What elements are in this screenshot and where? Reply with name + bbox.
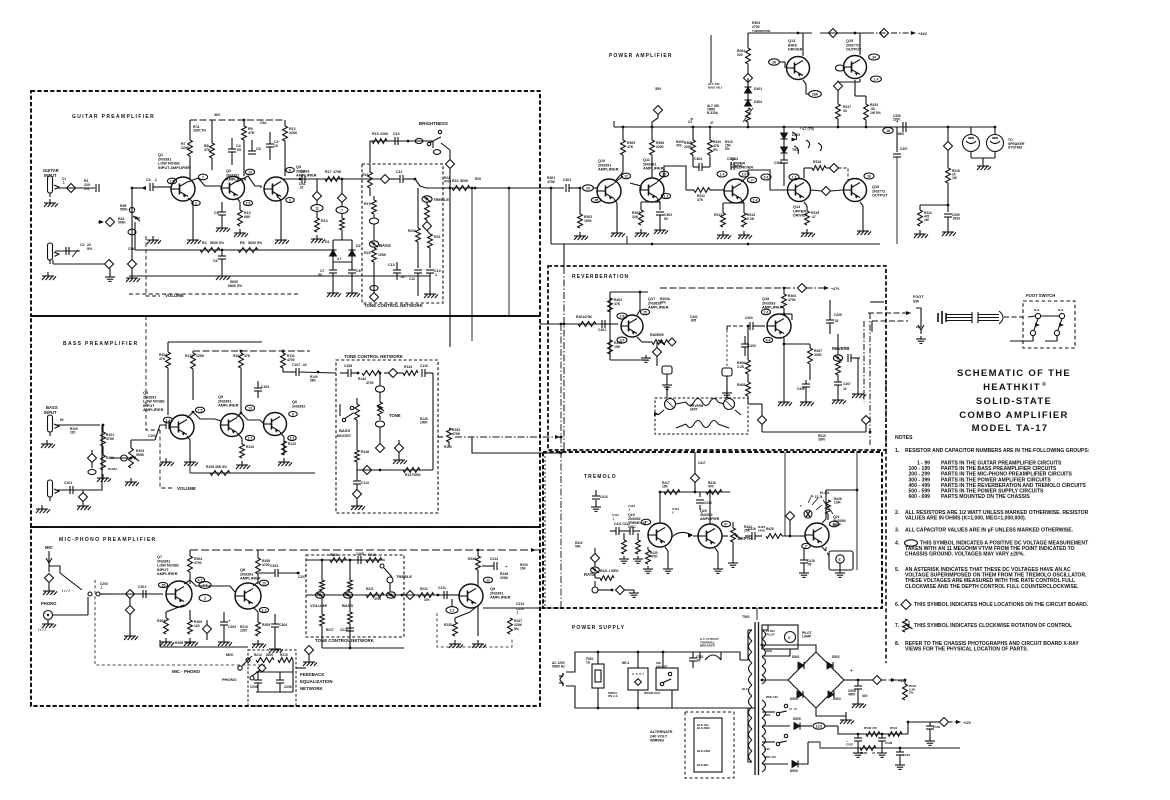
svg-text:3300: 3300	[818, 438, 825, 442]
emitter Q5 resistor R110	[236, 433, 254, 469]
svg-text:R107: R107	[233, 354, 241, 358]
resistor R227 5 percent	[508, 618, 523, 634]
on-off switch ps	[656, 652, 678, 708]
capacitor C4	[228, 138, 241, 165]
secondary bottom tap	[762, 734, 788, 751]
svg-text:®: ®	[1042, 381, 1046, 388]
capacitor C510 lower	[895, 748, 911, 769]
svg-text:4000: 4000	[897, 132, 904, 136]
svg-text:AMPLIFIER: AMPLIFIER	[143, 408, 164, 412]
wire Q20 base	[693, 535, 698, 537]
svg-text:1.4: 1.4	[874, 77, 879, 81]
svg-text:C510: C510	[903, 753, 911, 757]
emitter Q16 down	[857, 202, 871, 235]
capacitor C403	[741, 336, 756, 356]
bus wire mic out up	[560, 453, 562, 608]
svg-text:THIS SYMBOL INDICATES HOLE LOC: THIS SYMBOL INDICATES HOLE LOCATIONS ON …	[914, 602, 1089, 608]
svg-text:2200: 2200	[656, 145, 664, 149]
resistor R403	[608, 340, 623, 354]
reverb unit coil 1	[654, 399, 676, 417]
bridge top wire	[761, 644, 816, 652]
output junction wires	[855, 80, 866, 96]
wire primary to transformer	[740, 630, 752, 660]
svg-text:HI: HI	[60, 418, 63, 422]
wire bottom rail to reverb	[563, 244, 565, 267]
tone control network box bass	[336, 360, 438, 513]
secondary top tap wire	[762, 649, 790, 656]
wire cable to foot switch box	[1004, 316, 1023, 318]
wire Q10 collector to Q11 base	[614, 176, 641, 190]
wire Q17 emitter chain	[637, 337, 652, 342]
top supply rail power amp	[748, 32, 868, 35]
emitter Q6 ground	[278, 432, 296, 466]
svg-text:FOOT SWITCH: FOOT SWITCH	[1026, 293, 1055, 298]
hole diamond below C113	[351, 490, 365, 511]
svg-text:TREBLE: TREBLE	[396, 574, 412, 579]
tremolo supply filter wire	[838, 726, 908, 735]
wire Q13 collector	[802, 33, 804, 56]
lower out wire ps	[808, 742, 960, 749]
diamond coupling Q16	[830, 164, 849, 181]
svg-text:+47V: +47V	[831, 287, 840, 291]
svg-text:2.6: 2.6	[620, 314, 625, 318]
title line 2 HEATHKIT	[983, 381, 1046, 393]
capacitor C101 bass in	[64, 481, 73, 494]
resistor R312 emitter Q12	[714, 199, 744, 239]
voltage oval Q10 base	[591, 197, 600, 202]
svg-text:VOLUME: VOLUME	[310, 603, 327, 608]
svg-text:AMPLIFIER: AMPLIFIER	[296, 174, 317, 178]
svg-text:13: 13	[832, 522, 836, 526]
svg-text:MIC - PHONO: MIC - PHONO	[172, 669, 201, 674]
brightness rail	[370, 141, 433, 163]
svg-text:BLK-RED: BLK-RED	[697, 726, 710, 730]
voltage oval Q21 collector	[829, 521, 838, 527]
svg-text:47K: 47K	[660, 301, 667, 305]
svg-text:R221: R221	[366, 587, 374, 591]
svg-text:50/60 Hz: 50/60 Hz	[552, 665, 565, 669]
power supply speckle labels	[742, 649, 779, 759]
svg-text:C3: C3	[146, 178, 151, 182]
power amp mid rail	[614, 126, 996, 129]
voltage oval Q11 emitter	[661, 193, 670, 198]
tiny label cluster pa2	[725, 140, 733, 151]
svg-text:R21: R21	[434, 235, 441, 239]
svg-text:PHONO: PHONO	[41, 601, 57, 606]
ground below mic	[43, 587, 71, 595]
capacitor C508	[877, 734, 893, 757]
svg-text:THERMISTOR: THERMISTOR	[752, 29, 770, 33]
svg-text:R15: R15	[372, 132, 379, 136]
svg-text:AMPLIFIER: AMPLIFIER	[648, 306, 669, 310]
svg-text:500: 500	[658, 333, 664, 337]
svg-text:C3: C3	[688, 120, 692, 124]
wire jack2 chain	[53, 251, 105, 264]
svg-text:BRIGHTNESS: BRIGHTNESS	[419, 121, 448, 126]
voltage oval Q17 emitter	[617, 337, 627, 343]
svg-text:R505: R505	[860, 751, 868, 755]
voltage oval Q3 rail	[311, 201, 323, 212]
svg-text:220K 5%: 220K 5%	[193, 129, 206, 133]
top rail tone mic	[306, 559, 385, 562]
svg-text:PARTS MOUNTED ON THE CHASSIS: PARTS MOUNTED ON THE CHASSIS	[941, 494, 1030, 500]
svg-text:C508: C508	[885, 741, 893, 745]
resistor R144 on rail	[403, 365, 418, 375]
svg-text:.1: .1	[62, 181, 65, 185]
hole diamond input 2	[105, 260, 114, 269]
svg-text:R421 1 MEG: R421 1 MEG	[600, 569, 619, 573]
svg-text:R316: R316	[813, 160, 821, 164]
svg-text:8.: 8.	[895, 641, 900, 647]
transistor Q13 bias driver	[787, 39, 810, 80]
reverb bottom rail	[762, 425, 866, 442]
svg-text:R203: R203	[157, 619, 165, 623]
hole diamond reverb bottom right	[862, 416, 871, 425]
svg-text:16: 16	[886, 129, 890, 133]
capacitor C11 tone	[390, 170, 415, 183]
hole diamond tone in	[381, 175, 390, 184]
transformer secondary winding bottom	[762, 700, 766, 772]
svg-text:VOLUME: VOLUME	[177, 486, 196, 491]
wire zener tops	[333, 232, 352, 262]
guitar right labels	[444, 176, 481, 184]
label VOLUME guitar	[165, 293, 184, 298]
svg-text:2.2K: 2.2K	[747, 217, 755, 221]
transformer T501 core	[755, 622, 759, 775]
ac plug	[552, 661, 566, 686]
resistor R205 120	[184, 610, 202, 646]
capacitor C309	[942, 205, 960, 236]
svg-text:GUITAR PREAMPLIFIER: GUITAR PREAMPLIFIER	[72, 114, 155, 120]
capacitor C210 bottom mic	[340, 628, 354, 632]
resistor R9	[242, 119, 255, 176]
svg-text:5600 5%: 5600 5%	[248, 241, 263, 245]
resistor R14	[340, 213, 345, 232]
svg-text:NOTES: NOTES	[895, 435, 913, 441]
tone control network box mic	[306, 555, 404, 637]
phono input jack	[41, 601, 57, 620]
svg-text:R218: R218	[368, 553, 376, 557]
svg-text:THIS SYMBOL INDICATES CLOCKWIS: THIS SYMBOL INDICATES CLOCKWISE ROTATION…	[914, 623, 1072, 629]
svg-text:C401: C401	[598, 328, 606, 332]
svg-text:12.6: 12.6	[816, 724, 823, 728]
reverb unit dashed box	[655, 398, 748, 434]
wire Q19 collector	[659, 491, 662, 523]
svg-text:AMPLIFIER: AMPLIFIER	[643, 167, 664, 171]
resistor R425 coupling	[766, 527, 800, 538]
svg-text:7: 7	[202, 175, 204, 179]
svg-text:C213: C213	[516, 602, 524, 606]
hole diamond Q7 emitter	[203, 620, 212, 640]
svg-text:C211: C211	[438, 586, 446, 590]
photocell resistor	[823, 497, 842, 520]
ground below C14	[424, 290, 438, 298]
wire Q1 collector to Q2 base	[188, 178, 221, 190]
svg-text:C204: C204	[279, 623, 287, 627]
ground below C8	[346, 289, 360, 297]
voltage ovals Q14 base	[761, 174, 799, 180]
label MIC-PHONO PREAMPLIFIER	[59, 537, 156, 543]
svg-text:* 4.7 (TR): * 4.7 (TR)	[800, 127, 814, 131]
svg-text:47K: 47K	[697, 198, 704, 202]
guitar speckle labels 2	[193, 121, 306, 190]
guitar out to power amp wire	[540, 187, 560, 189]
svg-text:13: 13	[248, 406, 252, 410]
svg-text:SW: SW	[913, 299, 920, 303]
svg-text:R209: R209	[262, 623, 270, 627]
svg-text:680: 680	[244, 215, 250, 219]
power amp input bus down	[545, 187, 551, 189]
svg-text:50: 50	[664, 217, 668, 221]
note 7 symbol	[903, 619, 913, 632]
svg-text:47K: 47K	[244, 354, 251, 358]
supply rail guitar preamp	[190, 113, 285, 120]
ground below diamond input2	[105, 269, 115, 282]
svg-text:28: 28	[772, 60, 776, 64]
voltage oval Q2 collector	[245, 169, 254, 175]
svg-text:500K: 500K	[118, 221, 126, 225]
svg-text:C6: C6	[213, 259, 218, 263]
svg-text:R225: R225	[444, 623, 452, 627]
svg-text:4700: 4700	[366, 381, 374, 385]
capacitor C5	[248, 140, 261, 154]
transistor Q8	[235, 568, 261, 609]
wire Q12 collector to Q14 base	[741, 170, 787, 190]
ground below guitar jack 1	[44, 199, 58, 207]
wire diode chain	[783, 126, 786, 186]
svg-text:470K: 470K	[333, 170, 342, 174]
svg-text:4700: 4700	[444, 180, 451, 184]
reverb right bus dashdot	[869, 313, 872, 445]
svg-text:R312: R312	[714, 213, 722, 217]
svg-text:TONE CONTROL NETWORK: TONE CONTROL NETWORK	[364, 303, 424, 308]
tremolo right corner wires	[826, 547, 829, 556]
svg-text:ALL CAPACITOR VALUES ARE IN µF: ALL CAPACITOR VALUES ARE IN µF UNLESS MA…	[905, 528, 1074, 534]
hole diamond eq out	[303, 646, 317, 667]
capacitor C110 rail end	[420, 364, 433, 377]
label VOLUME bass	[177, 486, 196, 491]
label tone control network guitar	[364, 303, 424, 308]
resistor R308	[684, 127, 695, 163]
hole diamond rail 2	[338, 179, 347, 203]
resistor R408 lower	[737, 374, 750, 404]
svg-text:22K: 22K	[632, 215, 639, 219]
wire Q21 base	[800, 535, 805, 537]
svg-text:BASS: BASS	[379, 243, 391, 248]
label tone control network bass	[344, 354, 404, 359]
transistor Q17 reverb	[621, 297, 669, 337]
svg-text:1W: 1W	[924, 218, 929, 222]
svg-text:SYSTEM: SYSTEM	[1008, 146, 1022, 150]
svg-text:C8: C8	[356, 269, 361, 273]
reverberation block outline	[548, 266, 886, 450]
svg-text:C202: C202	[228, 625, 236, 629]
svg-text:C5: C5	[256, 147, 261, 151]
capacitor C204 Q8	[269, 614, 287, 653]
svg-text:R20A: R20A	[408, 229, 417, 233]
svg-text:BREAKER: BREAKER	[700, 644, 716, 648]
voltage oval Q6 collector	[289, 411, 297, 416]
capacitor C113 bottom	[353, 470, 369, 490]
foot switch contact A	[1028, 308, 1041, 319]
capacitor C304	[693, 157, 710, 171]
svg-text:13: 13	[662, 172, 666, 176]
treble pot R20	[422, 196, 449, 231]
voltage oval Q10 collector	[621, 173, 630, 179]
svg-text:R103A: R103A	[108, 467, 118, 471]
svg-text:R401: R401	[576, 315, 584, 319]
svg-text:11: 11	[315, 206, 319, 210]
label POWER AMPLIFIER	[609, 53, 673, 59]
ground mid guitar	[147, 236, 161, 244]
svg-text:50: 50	[318, 273, 322, 277]
svg-text:0.6: 0.6	[764, 175, 769, 179]
ground cap left tremolo	[591, 490, 608, 511]
supply out right wires	[907, 721, 930, 734]
emitter Q4 ground	[184, 436, 198, 466]
svg-text:5600: 5600	[460, 179, 468, 183]
resistor network R311	[686, 188, 716, 202]
svg-text:10: 10	[274, 144, 278, 148]
svg-text:2.6: 2.6	[764, 310, 769, 314]
hole diamond node bottom	[128, 260, 137, 275]
thermal switch arc	[700, 637, 740, 660]
resistor R306 Q11 collector	[650, 127, 665, 178]
supply rail mic-phono	[190, 548, 540, 552]
resistor R142 4700	[358, 371, 381, 385]
voltage oval Q1 collector	[198, 174, 207, 180]
capacitor C507	[846, 734, 863, 757]
svg-text:LAMP: LAMP	[802, 635, 812, 639]
hole diamond mic tone out	[404, 591, 418, 600]
voltage oval Q5 emitter	[245, 435, 254, 440]
svg-text:500K: 500K	[120, 208, 128, 212]
resistor R303 4700 top	[752, 21, 770, 33]
resistor R101 470K	[101, 424, 115, 446]
junction dots interconnect	[560, 323, 566, 455]
wire Q7 collector to Q8 base	[184, 580, 235, 592]
voltage oval Q7 base2	[158, 582, 167, 587]
power amp bottom rail	[551, 243, 880, 246]
svg-text:R226: R226	[468, 557, 476, 561]
reverb drive transducer	[662, 366, 672, 398]
svg-text:C410: C410	[600, 495, 608, 499]
feedback wire power amp	[622, 171, 624, 173]
capacitor C306 on rail	[893, 114, 906, 132]
wire bass jack2	[55, 425, 102, 490]
voltage oval Q13	[769, 59, 785, 68]
secondary 6.3V tap	[762, 704, 798, 715]
wire Q2 collector to Q3 base	[237, 176, 261, 188]
svg-text:3300: 3300	[814, 353, 822, 357]
svg-text:R147: R147	[405, 473, 413, 477]
svg-text:ON A-C: ON A-C	[608, 694, 618, 698]
svg-text:TREBLE: TREBLE	[433, 197, 449, 202]
long feedback wire guitar	[129, 276, 430, 288]
svg-text:R214: R214	[254, 653, 262, 657]
voltage oval Q10 base	[583, 185, 598, 191]
wire Q13 emitter	[803, 80, 806, 90]
svg-text:470K: 470K	[106, 437, 115, 441]
trim pot label	[707, 104, 719, 115]
svg-text:470K: 470K	[650, 555, 658, 559]
svg-text:9: 9	[289, 168, 291, 172]
svg-text:R146: R146	[361, 450, 369, 454]
ground below bass jack2	[36, 505, 50, 513]
tremolo speckle labels	[612, 504, 766, 532]
rail tone out to box edge	[443, 187, 540, 190]
mic speckle labels	[100, 575, 306, 633]
voltage oval Q8 emitter	[259, 607, 268, 612]
label TREMOLO	[584, 474, 617, 480]
resistor R304 220	[737, 33, 750, 74]
note 7	[895, 623, 1072, 629]
foot switch cable plug left	[938, 311, 972, 324]
svg-text:COMBO AMPLIFIER: COMBO AMPLIFIER	[959, 410, 1068, 421]
svg-text:1W 5%: 1W 5%	[870, 111, 881, 115]
svg-text:220: 220	[737, 53, 743, 57]
voltage oval Q4 collector	[195, 407, 204, 413]
capacitor C203 out	[253, 564, 300, 586]
svg-text:R144: R144	[404, 365, 412, 369]
mic phono switch lower	[172, 652, 266, 682]
svg-text:56K: 56K	[310, 379, 317, 383]
thermistor R315	[743, 108, 753, 127]
svg-text:C12: C12	[409, 277, 415, 281]
svg-text:4.2: 4.2	[203, 583, 208, 587]
foot switch contact B	[1041, 308, 1065, 319]
ground below bass jack	[41, 440, 55, 448]
wire Q15 collector	[859, 33, 861, 55]
label POWER SUPPLY	[572, 625, 625, 631]
svg-text:4700: 4700	[788, 298, 796, 302]
svg-text:R13: R13	[321, 219, 328, 223]
svg-text:5%: 5%	[87, 247, 93, 251]
svg-text:BLK: BLK	[742, 687, 748, 691]
voltage oval Q15 base	[835, 65, 844, 71]
note 6 symbol	[901, 600, 911, 610]
svg-text:R408: R408	[737, 383, 745, 387]
svg-text:2.0: 2.0	[742, 172, 747, 176]
svg-text:39K 5%: 39K 5%	[215, 465, 227, 469]
svg-text:10: 10	[843, 387, 847, 391]
svg-text:TONE CONTROL NETWORK: TONE CONTROL NETWORK	[315, 638, 375, 643]
capacitor C303	[727, 157, 742, 170]
resistor R226 Q9 collector	[468, 550, 480, 586]
svg-text:.1: .1	[628, 507, 631, 511]
voltage oval Q11 collector	[659, 171, 668, 177]
resistor R405 output pot	[650, 333, 668, 345]
reverb speckle labels	[660, 297, 698, 323]
voltage oval Q1 base	[167, 178, 176, 184]
resistor R214 eq	[254, 653, 274, 662]
resistor R406 Q18 base	[737, 325, 750, 374]
speaker jack 2	[987, 126, 1004, 158]
svg-text:D501: D501	[792, 655, 800, 659]
transistor Q11	[640, 158, 664, 202]
lamp rays	[808, 491, 830, 510]
hole diamond bass 2	[77, 490, 91, 510]
svg-text:POWER AMPLIFIER: POWER AMPLIFIER	[609, 53, 673, 59]
capacitor C3 coupling	[146, 178, 165, 191]
svg-text:5%: 5%	[909, 691, 914, 695]
diamond output node	[944, 127, 953, 168]
svg-text:C9: C9	[300, 170, 305, 174]
capacitor C10 brightness	[393, 132, 423, 145]
label 47 on power rail	[688, 120, 714, 125]
svg-text:C405: C405	[834, 313, 842, 317]
resistor R1 220 label	[84, 179, 90, 191]
